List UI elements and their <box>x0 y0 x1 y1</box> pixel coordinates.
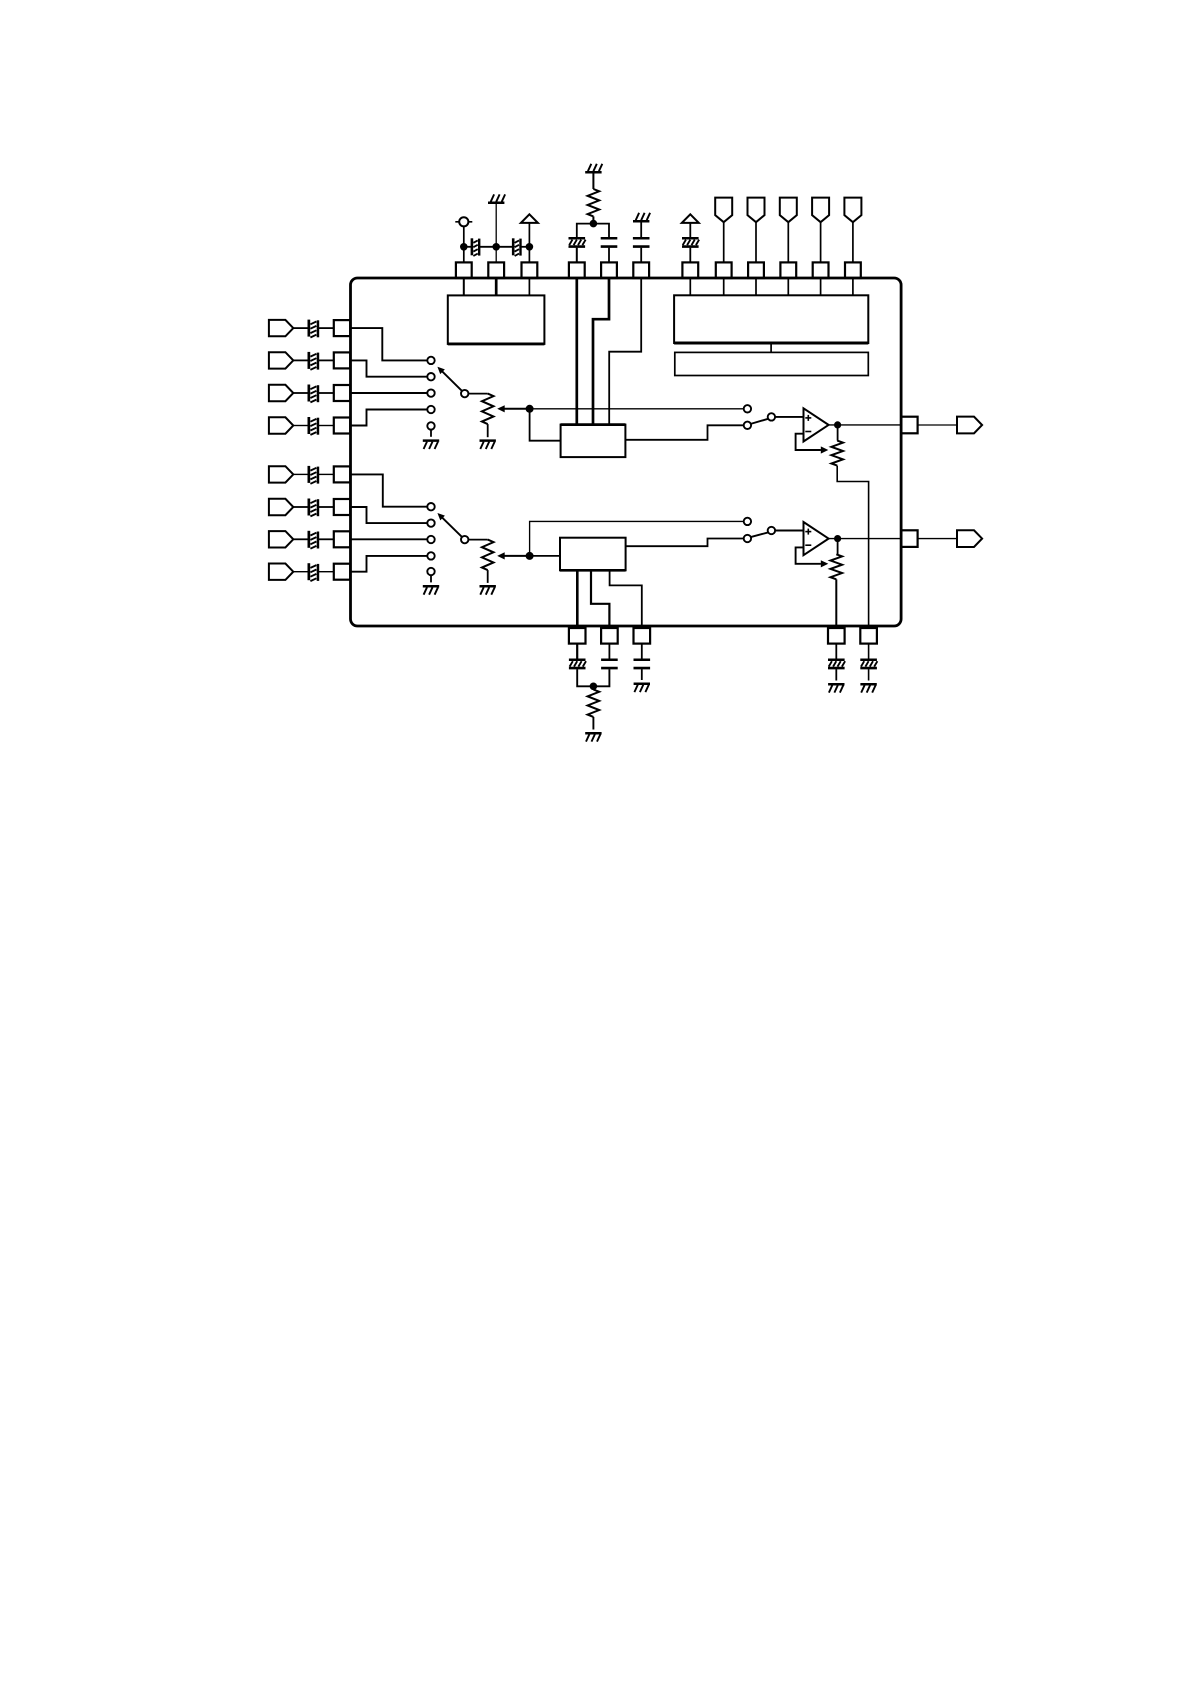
pin L4 <box>334 418 350 434</box>
wire <box>351 556 428 572</box>
wire <box>835 579 837 628</box>
block B5 (volume control 2) <box>560 538 626 571</box>
IC outline U1 <box>351 278 902 626</box>
pin 7 (top) <box>682 262 698 278</box>
wire <box>351 360 428 376</box>
wire <box>318 327 334 329</box>
wire <box>293 425 309 427</box>
wire <box>351 507 428 523</box>
wire <box>351 392 428 394</box>
pin 3 (top) <box>522 262 538 278</box>
switch SW1 arm <box>441 371 461 391</box>
wire <box>868 669 870 680</box>
wire <box>351 474 428 506</box>
ground <box>480 439 496 442</box>
wire <box>351 328 428 360</box>
capacitor C9 <box>308 385 311 402</box>
ground <box>634 682 650 685</box>
wire <box>318 571 334 573</box>
wire bus 2 <box>593 279 609 425</box>
wire <box>796 434 821 450</box>
capacitor C15 <box>569 659 586 662</box>
pin 15 (bottom) <box>634 628 651 644</box>
capacitor C7 <box>308 320 311 337</box>
wire <box>852 222 854 262</box>
wire <box>318 506 334 508</box>
resistor R2 (volume 1) <box>482 394 494 425</box>
wire <box>918 424 957 426</box>
wire <box>430 430 432 437</box>
switch SW1 contact 3 <box>427 389 434 396</box>
wire <box>755 279 757 295</box>
wire <box>829 424 902 426</box>
connector IN8 <box>269 564 293 580</box>
wire <box>641 669 643 680</box>
switch SW2 contact 1 <box>427 503 434 510</box>
connector OUT1 <box>957 417 982 434</box>
connector OUT2 <box>957 530 982 547</box>
pin L3 <box>334 385 350 401</box>
pin L1 <box>334 320 350 336</box>
ground <box>633 220 649 223</box>
wire <box>689 279 691 295</box>
switch SW3 contact b <box>744 422 751 429</box>
wire <box>351 538 428 540</box>
wire <box>530 409 561 441</box>
connector J3 <box>780 198 797 223</box>
pin 2 (top) <box>488 262 504 278</box>
connector J5 <box>844 198 861 223</box>
switch SW1 contact 1 <box>427 357 434 364</box>
node B <box>492 243 500 251</box>
wire <box>464 246 472 248</box>
pin L8 <box>334 564 350 580</box>
wire <box>689 223 691 238</box>
resistor R6 <box>588 690 600 717</box>
pin 14 (bottom) <box>601 628 618 644</box>
wire <box>487 424 489 437</box>
ground <box>585 171 601 174</box>
wire <box>318 473 334 475</box>
wire <box>918 538 957 540</box>
switch SW1 common <box>461 390 468 397</box>
wire <box>293 538 309 540</box>
ground <box>860 683 876 686</box>
capacitor C8 <box>308 352 311 369</box>
wire <box>641 644 643 659</box>
wire <box>318 425 334 427</box>
wire <box>463 226 465 262</box>
wire <box>852 279 854 295</box>
wire <box>496 246 513 248</box>
connector IN1 <box>269 320 293 336</box>
wire <box>608 644 610 659</box>
wire <box>293 571 309 573</box>
wire <box>495 279 498 296</box>
wire <box>430 575 432 582</box>
capacitor C11 <box>308 466 311 483</box>
connector J4 <box>812 198 829 223</box>
wire <box>787 279 789 295</box>
wire <box>626 539 744 547</box>
wire <box>293 359 309 361</box>
wire <box>479 246 496 248</box>
power V1 <box>521 214 538 223</box>
wire <box>723 222 725 262</box>
block B3 (latch) <box>675 352 869 375</box>
wire <box>577 669 593 686</box>
node F <box>834 421 841 428</box>
switch SW2 arm <box>442 517 462 537</box>
op-amp U2 <box>804 408 829 441</box>
resistor R3 (feedback 1) <box>831 441 843 466</box>
wire <box>351 410 428 426</box>
wire <box>468 539 487 541</box>
wire <box>689 248 691 263</box>
pin L7 <box>334 531 350 547</box>
wire <box>835 669 837 680</box>
pin R1 (out 1) <box>901 417 917 434</box>
capacitor C13 <box>308 531 311 548</box>
wiper arrow <box>821 560 829 567</box>
capacitor C18 <box>828 659 845 662</box>
wire bus 6 <box>610 570 642 628</box>
switch SW3 arm <box>751 419 768 424</box>
switch SW1 contact 5 <box>427 422 434 429</box>
capacitor C12 <box>308 499 311 516</box>
pin 9 (top) <box>748 262 764 278</box>
wire <box>293 392 309 394</box>
wire bus 5 <box>591 570 609 628</box>
connector IN7 <box>269 531 293 547</box>
pin 13 (bottom) <box>569 628 586 644</box>
wire <box>592 717 594 730</box>
wire <box>530 521 744 556</box>
wire <box>592 173 594 189</box>
pin 1 (top) <box>456 262 472 278</box>
connector IN3 <box>269 385 293 401</box>
wire <box>495 204 497 262</box>
pin 10 (top) <box>780 262 796 278</box>
wire <box>820 279 822 295</box>
wiper arrow <box>505 408 530 410</box>
block B2 (logic decoder) <box>674 295 868 343</box>
wire <box>640 222 642 238</box>
wire <box>592 216 594 223</box>
capacitor C17 <box>634 659 651 662</box>
switch SW3 common <box>768 413 775 420</box>
pin L6 <box>334 499 350 515</box>
capacitor C6 <box>682 237 699 240</box>
connector IN6 <box>269 499 293 515</box>
wiper arrow <box>505 555 530 557</box>
pin 17 (bottom) <box>860 628 877 644</box>
wire <box>723 279 725 295</box>
wire <box>796 547 821 563</box>
node D <box>590 220 598 228</box>
node G <box>526 552 534 560</box>
pin 11 (top) <box>813 262 829 278</box>
block B4 (volume control 1) <box>561 425 626 458</box>
wire <box>528 223 530 263</box>
connector IN4 <box>269 417 293 433</box>
capacitor C5 <box>633 237 650 240</box>
node C <box>526 243 534 251</box>
wire <box>576 248 578 263</box>
pin 5 (top) <box>601 262 617 278</box>
connector J1 <box>715 198 732 223</box>
connector J2 <box>748 198 765 223</box>
switch SW1 contact 2 <box>427 373 434 380</box>
switch SW2 contact 3 <box>427 536 434 543</box>
switch SW1 contact 4 <box>427 406 434 413</box>
wire <box>293 327 309 329</box>
wire <box>468 393 487 395</box>
wire <box>530 408 744 410</box>
switch SW2 common <box>461 536 468 543</box>
wire <box>787 222 789 262</box>
pin 16 (bottom) <box>828 628 845 644</box>
pin L5 <box>334 466 350 482</box>
capacitor C10 <box>308 417 311 434</box>
wire <box>640 248 642 263</box>
wire <box>318 359 334 361</box>
wire <box>868 644 870 659</box>
node J <box>590 683 598 691</box>
capacitor C2 <box>512 238 515 255</box>
wire <box>521 246 530 248</box>
switch SW2 contact 4 <box>427 552 434 559</box>
pin 6 (top) <box>633 262 649 278</box>
wire bus 4 <box>576 570 579 628</box>
pin 8 (top) <box>716 262 732 278</box>
wire <box>837 425 839 441</box>
op-amp U3 <box>804 522 829 555</box>
resistor R4 (volume 2) <box>482 540 494 570</box>
terminal T1 <box>455 221 472 223</box>
resistor R5 (feedback 2) <box>831 554 843 579</box>
pin R2 (out 2) <box>901 530 917 547</box>
wire <box>293 506 309 508</box>
wire <box>318 538 334 540</box>
ground <box>488 202 504 205</box>
capacitor C14 <box>308 563 311 580</box>
ground <box>423 439 439 442</box>
wire <box>293 473 309 475</box>
capacitor C4 <box>601 237 618 240</box>
wire <box>593 669 609 686</box>
wire <box>608 248 610 263</box>
wire bus 1 <box>575 279 578 425</box>
node H <box>834 535 841 542</box>
switch SW4 contact a <box>744 518 751 525</box>
wire <box>837 539 839 555</box>
switch SW2 contact 5 <box>427 568 434 575</box>
pin 4 (top) <box>569 262 585 278</box>
connector IN5 <box>269 466 293 482</box>
power V2 <box>682 214 699 223</box>
connector IN2 <box>269 352 293 368</box>
capacitor C3 <box>569 237 586 240</box>
capacitor C16 <box>601 659 618 662</box>
wire <box>318 392 334 394</box>
ground <box>585 732 601 735</box>
switch SW4 common <box>768 527 775 534</box>
pin 12 (top) <box>845 262 861 278</box>
ground <box>828 683 844 686</box>
wire <box>530 555 560 557</box>
switch SW2 contact 2 <box>427 519 434 526</box>
switch SW4 arm <box>751 532 768 537</box>
wire <box>835 644 837 659</box>
wiper arrow <box>821 446 829 453</box>
block B1 (regulator) <box>448 295 545 344</box>
wire <box>837 466 868 628</box>
wire <box>820 222 822 262</box>
wire <box>576 644 578 659</box>
wire <box>775 530 803 532</box>
capacitor C19 <box>860 659 877 662</box>
capacitor C1 <box>471 238 474 255</box>
wire <box>755 222 757 262</box>
wire <box>577 224 609 237</box>
ground <box>480 585 496 588</box>
wire <box>829 538 902 540</box>
wire <box>775 416 803 418</box>
wire bus 3 <box>609 279 641 425</box>
switch SW4 contact b <box>744 535 751 542</box>
wire <box>487 570 489 583</box>
wire <box>625 425 743 440</box>
wire <box>528 279 530 296</box>
resistor R1 <box>588 189 600 216</box>
wire <box>463 279 465 296</box>
pin L2 <box>334 352 350 368</box>
switch SW3 contact a <box>744 405 751 412</box>
node E <box>526 405 534 413</box>
ground <box>423 585 439 588</box>
wire <box>770 343 772 352</box>
node A <box>460 243 468 251</box>
